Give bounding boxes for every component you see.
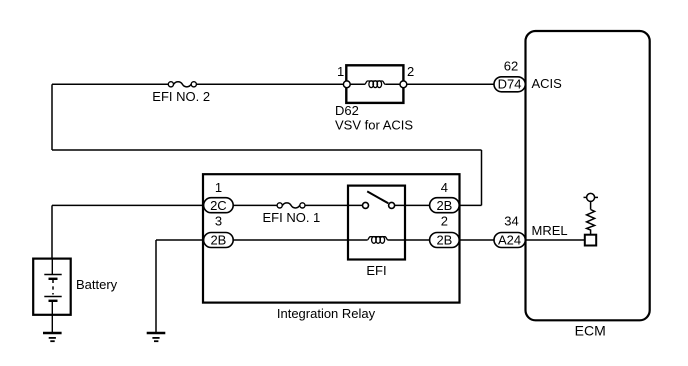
svg-text:2C: 2C <box>210 198 227 213</box>
svg-text:Integration Relay: Integration Relay <box>277 306 376 321</box>
svg-text:Battery: Battery <box>76 277 118 292</box>
svg-text:1: 1 <box>215 180 222 195</box>
svg-text:4: 4 <box>441 180 448 195</box>
svg-text:A24: A24 <box>498 233 521 248</box>
svg-text:2B: 2B <box>210 233 226 248</box>
svg-text:2: 2 <box>407 64 414 79</box>
svg-text:1: 1 <box>337 64 344 79</box>
svg-text:EFI: EFI <box>366 263 386 278</box>
svg-text:D62: D62 <box>335 103 359 118</box>
svg-text:2B: 2B <box>436 198 452 213</box>
svg-text:ACIS: ACIS <box>532 76 563 91</box>
svg-text:EFI NO. 1: EFI NO. 1 <box>263 210 321 225</box>
svg-text:3: 3 <box>215 214 222 229</box>
svg-text:34: 34 <box>504 214 518 229</box>
svg-text:2: 2 <box>441 214 448 229</box>
svg-text:D74: D74 <box>498 77 522 92</box>
svg-text:MREL: MREL <box>532 223 568 238</box>
svg-text:62: 62 <box>504 59 518 74</box>
svg-text:VSV for ACIS: VSV for ACIS <box>335 118 413 133</box>
svg-text:EFI NO. 2: EFI NO. 2 <box>152 89 210 104</box>
svg-text:2B: 2B <box>436 233 452 248</box>
svg-text:ECM: ECM <box>575 323 606 339</box>
